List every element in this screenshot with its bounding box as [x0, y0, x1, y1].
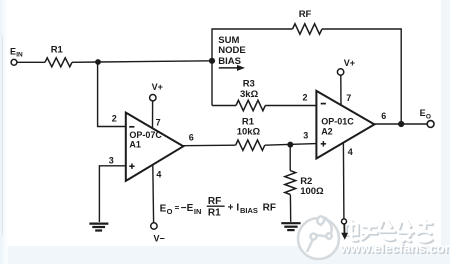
V+ terminal A2 — [337, 69, 343, 75]
minus sign A1 — [129, 126, 134, 128]
sum node dot — [209, 58, 215, 64]
svg-text:I: I — [236, 203, 239, 214]
wire A2 out to Eo — [374, 123, 427, 125]
wire R1 to sum node — [72, 61, 212, 63]
svg-text:V+: V+ — [344, 58, 355, 68]
svg-text:2: 2 — [112, 114, 117, 124]
wire sum node up and RF top rail — [212, 29, 293, 106]
svg-text:NODE: NODE — [218, 45, 245, 56]
Eo terminal — [427, 121, 434, 128]
op-amp A1 — [126, 113, 184, 181]
svg-text:4: 4 — [348, 147, 353, 157]
svg-text:R1: R1 — [208, 207, 221, 218]
svg-text:6: 6 — [189, 132, 194, 142]
plus sign A1 — [129, 165, 134, 167]
minus sign A2 — [321, 103, 326, 105]
resistor R3 3k — [236, 100, 265, 110]
svg-text:OP-07C: OP-07C — [129, 130, 162, 140]
svg-text:RF: RF — [299, 9, 312, 20]
A2 pin4 wire — [342, 143, 345, 219]
wire A1 out to R1 10k — [183, 144, 235, 147]
svg-text:−E: −E — [181, 203, 194, 214]
node Ein terminal — [11, 59, 17, 65]
wire R3 to A2 pin2 — [265, 105, 316, 107]
equation EO = -EIN RF/R1 + IBIAS RF — [160, 196, 276, 218]
svg-text:10kΩ: 10kΩ — [237, 126, 261, 137]
ground (A1 pin3) — [89, 224, 108, 231]
V- terminal A2 (end circle) — [342, 219, 347, 224]
svg-text:E: E — [160, 203, 167, 214]
V+ terminal A1 — [150, 95, 156, 101]
svg-text:7: 7 — [156, 117, 161, 127]
resistor R2 100 — [285, 171, 296, 195]
svg-text:IN: IN — [16, 51, 23, 58]
arrow under BIAS — [219, 67, 238, 69]
A1 pin7 wire — [152, 101, 154, 128]
svg-text:R1: R1 — [51, 45, 64, 56]
svg-text:BIAS: BIAS — [240, 206, 258, 215]
svg-text:www.elecfans.com: www.elecfans.com — [339, 241, 450, 256]
svg-text:A2: A2 — [321, 127, 333, 137]
svg-text:3: 3 — [303, 131, 308, 141]
svg-text:O: O — [426, 113, 431, 120]
svg-text:+: + — [228, 203, 234, 214]
svg-text:E: E — [10, 46, 16, 56]
svg-text:3kΩ: 3kΩ — [240, 89, 259, 100]
left scan line — [1, 35, 3, 235]
junction dot R2 — [287, 142, 293, 148]
watermark chinese characters — [345, 221, 433, 244]
svg-text:O: O — [167, 207, 173, 216]
junction dot A — [95, 59, 101, 65]
right blue strip — [441, 0, 450, 264]
wire down to R2 — [289, 145, 291, 171]
svg-text:3: 3 — [109, 156, 114, 166]
svg-text:V+: V+ — [152, 82, 163, 92]
wire R2 to ground — [289, 195, 291, 222]
svg-text:V−: V− — [154, 233, 165, 243]
resistor RF — [293, 24, 323, 34]
A1 pin4 wire — [152, 165, 155, 223]
watermark logo circle — [298, 216, 339, 259]
svg-text:R2: R2 — [300, 176, 312, 187]
wire input to R1 — [17, 61, 45, 63]
svg-text:RF: RF — [208, 196, 221, 207]
bottom blue strip — [0, 246, 450, 264]
svg-text:7: 7 — [346, 93, 351, 103]
svg-text:6: 6 — [381, 111, 386, 121]
A1 pin3 wire and ground run — [99, 166, 125, 222]
wire R1 10k to A2 pin3 — [265, 144, 317, 146]
wire RF to output node — [322, 29, 401, 124]
A2 pin7 wire — [340, 75, 342, 105]
svg-text:=: = — [175, 204, 180, 213]
svg-text:RF: RF — [263, 203, 276, 214]
wire junction down to A1 pin2 — [98, 62, 126, 127]
svg-text:IN: IN — [194, 207, 202, 216]
resistor R1 (input) — [45, 58, 72, 67]
V- terminal A1 — [151, 223, 157, 229]
plus sign A2 — [321, 143, 326, 145]
junction dot output — [398, 121, 404, 127]
svg-text:2: 2 — [303, 92, 308, 102]
resistor R1 10k — [236, 140, 265, 150]
svg-text:A1: A1 — [129, 140, 141, 150]
svg-text:OP-01C: OP-01C — [321, 116, 354, 126]
svg-text:100Ω: 100Ω — [300, 186, 324, 197]
svg-text:E: E — [420, 108, 426, 118]
svg-text:4: 4 — [156, 169, 161, 179]
arrow below A2 pin4 — [343, 224, 345, 233]
op-amp A2 — [316, 91, 374, 159]
wire sum to R3 — [212, 105, 236, 107]
ground (R2) — [281, 223, 300, 230]
